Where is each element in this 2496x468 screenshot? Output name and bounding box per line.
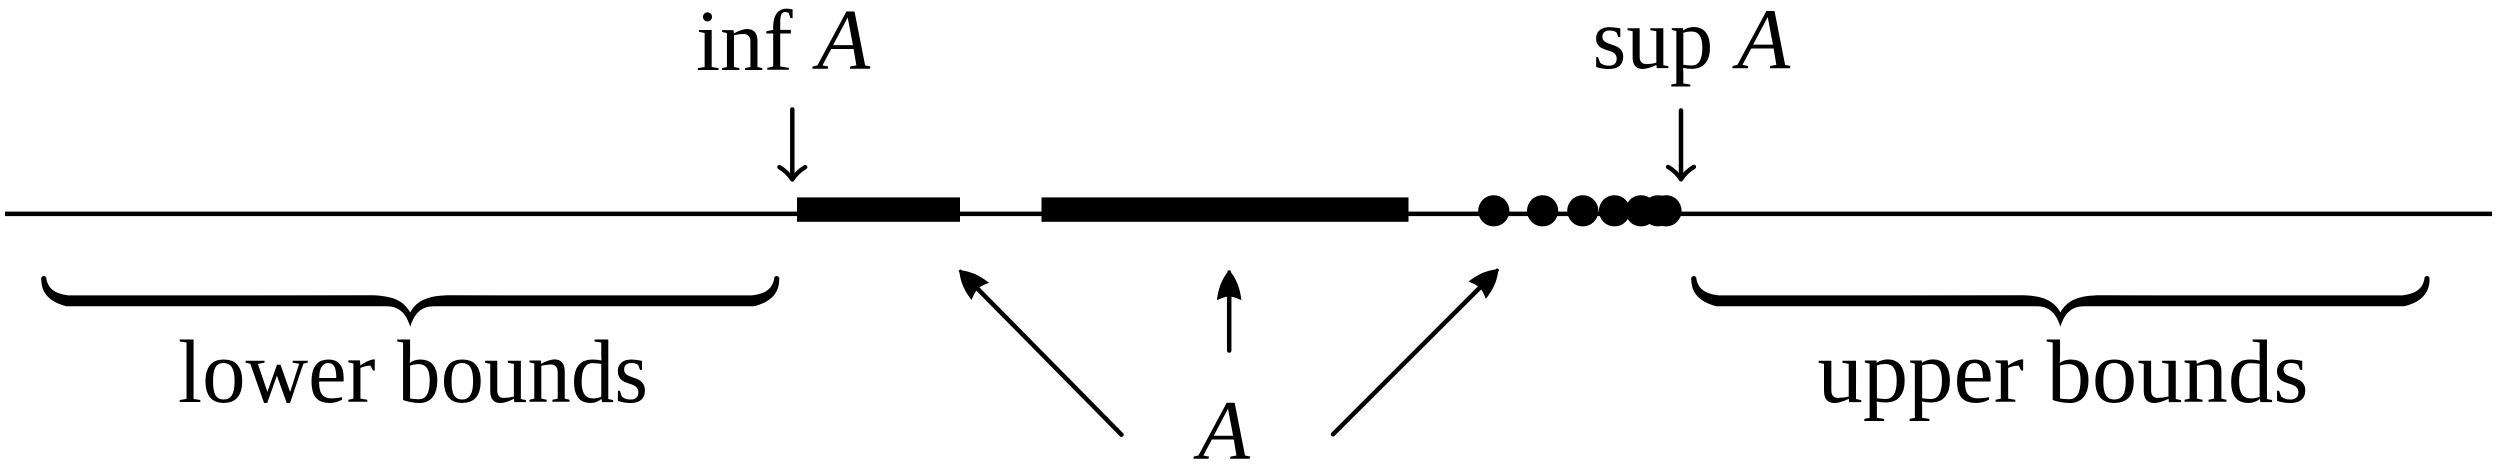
- svg-text:sup: sup: [1593, 0, 1714, 87]
- svg-text:upper bounds: upper bounds: [1818, 323, 2309, 422]
- svg-text:lower bounds: lower bounds: [178, 323, 648, 422]
- svg-text:inf: inf: [696, 0, 793, 89]
- svg-text:A: A: [1193, 384, 1251, 468]
- svg-text:A: A: [1732, 0, 1791, 88]
- svg-text:A: A: [812, 0, 871, 88]
